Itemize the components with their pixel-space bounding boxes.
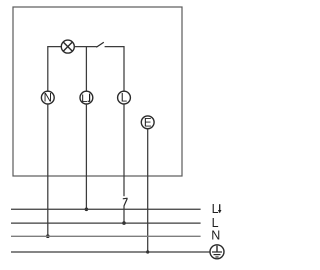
terminal L1 (switched live, L with down arrow) bbox=[80, 91, 93, 105]
bus line PE (earth) bbox=[11, 251, 210, 253]
svg-text:L: L bbox=[121, 93, 128, 105]
external switch S2 (break symbol in L wire) bbox=[123, 198, 128, 206]
junction dot L bus bbox=[122, 221, 126, 225]
wire from terminal N up and right to lamp bbox=[48, 47, 62, 92]
label L bbox=[212, 216, 219, 230]
label N bbox=[211, 229, 220, 243]
wire terminal N down to N bus bbox=[47, 104, 49, 236]
svg-text:N: N bbox=[211, 229, 220, 243]
lamp E1 (circle with cross) bbox=[61, 40, 74, 53]
terminal E (earth) bbox=[141, 116, 154, 129]
bus line N bbox=[11, 235, 201, 237]
wire from external switch down to L bus bbox=[123, 206, 125, 224]
wire from lamp right to switch bbox=[74, 46, 96, 48]
svg-text:L: L bbox=[81, 93, 87, 105]
wire from switch right, down to terminal L bbox=[105, 47, 124, 92]
junction dot switched-live bus bbox=[85, 208, 89, 212]
switch S1 blade (open contact) bbox=[96, 42, 104, 47]
terminal N bbox=[41, 91, 54, 105]
earth symbol (protective earth in circle) bbox=[210, 245, 224, 259]
device enclosure box bbox=[13, 7, 182, 176]
junction dot N bus bbox=[46, 234, 50, 238]
wire terminal L down to external switch bbox=[123, 104, 125, 196]
wire terminal L1 down to switched-live bus bbox=[85, 104, 87, 209]
wire terminal E down to earth bus bbox=[147, 129, 149, 252]
svg-text:E: E bbox=[144, 117, 152, 129]
svg-text:N: N bbox=[44, 93, 52, 105]
junction dot earth bus bbox=[146, 250, 149, 253]
svg-text:L: L bbox=[212, 202, 219, 216]
bus line L bbox=[11, 222, 201, 224]
terminal L bbox=[118, 91, 131, 105]
label L-switched bbox=[212, 202, 222, 216]
wire stub down to terminal L1 bbox=[85, 47, 87, 92]
bus line L-switched (top supply line) bbox=[11, 208, 201, 210]
